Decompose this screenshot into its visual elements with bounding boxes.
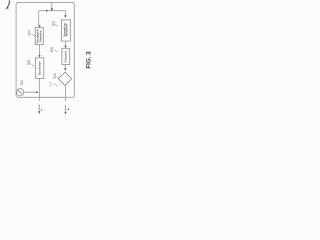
svg-text:302: 302 xyxy=(51,21,55,27)
svg-text:Dividers: Dividers xyxy=(38,30,42,42)
svg-text:Counter: Counter xyxy=(63,50,67,62)
svg-text:310: 310 xyxy=(53,73,57,79)
svg-text:306: 306 xyxy=(27,60,31,66)
svg-text:FIG. 3: FIG. 3 xyxy=(86,51,92,69)
svg-text:308: 308 xyxy=(50,47,54,53)
svg-text:Receiver: Receiver xyxy=(65,23,69,36)
svg-text:314: 314 xyxy=(48,81,52,86)
svg-text:304: 304 xyxy=(28,30,32,36)
svg-text:312: 312 xyxy=(20,80,24,86)
svg-text:Oscillator: Oscillator xyxy=(37,61,41,76)
